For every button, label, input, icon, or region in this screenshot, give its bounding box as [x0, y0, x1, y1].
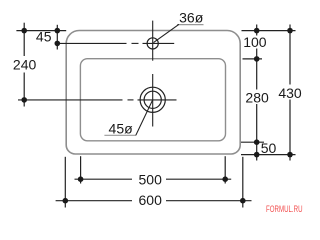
faucet centerline horizontal: [57, 42, 174, 44]
svg-text:45: 45: [36, 29, 52, 45]
dim line 500: [75, 178, 232, 180]
dot chain rim bottom: [254, 152, 260, 158]
dot 240 top: [21, 28, 27, 34]
dot chain basin bottom: [254, 139, 260, 145]
faucet hole circle 36ø: [147, 38, 158, 49]
svg-text:430: 430: [278, 85, 302, 101]
dot 500 right: [222, 176, 228, 182]
dim line 430: [289, 25, 291, 161]
leader 36ø: [154, 24, 180, 42]
dot 600 left: [63, 198, 69, 204]
bottom extension rim left: [64, 157, 66, 208]
dot chain top: [254, 28, 260, 34]
dim line 600: [56, 200, 252, 202]
underline 45ø: [104, 134, 136, 136]
faucet centerline vertical: [152, 21, 154, 61]
right extension line basin bottom: [241, 141, 264, 143]
svg-text:280: 280: [245, 90, 269, 106]
dot chain basin top: [254, 56, 260, 62]
drain centerline vertical: [152, 74, 154, 127]
svg-text:50: 50: [261, 140, 277, 156]
dot 500 left: [78, 176, 84, 182]
svg-text:600: 600: [139, 192, 163, 208]
right extension line basin top: [243, 58, 263, 60]
dim line 45: [56, 25, 58, 50]
dot 600 right: [240, 198, 246, 204]
dot 430 top: [287, 28, 293, 34]
right extension line rim bottom: [241, 154, 296, 156]
svg-text:45ø: 45ø: [109, 121, 134, 137]
bottom extension rim right: [242, 157, 244, 208]
sink outer rim rect 600x430: [66, 31, 240, 155]
dot 240 bottom: [21, 97, 27, 103]
top-left extension line: [16, 30, 66, 32]
svg-text:100: 100: [243, 34, 267, 50]
dot 430 bottom: [287, 152, 293, 158]
drain inner circle 45ø: [144, 91, 161, 108]
bottom extension basin right: [224, 156, 226, 183]
svg-text:240: 240: [13, 56, 37, 72]
dim line 100/280/50 chain: [256, 25, 258, 161]
drain outer circle: [140, 87, 165, 112]
basin inner rect 500x280: [80, 59, 225, 141]
svg-text:FORMUL.RU: FORMUL.RU: [266, 204, 303, 214]
svg-text:36ø: 36ø: [179, 9, 204, 25]
drain centerline horizontal (also 240 extension): [18, 99, 177, 101]
dot 45 bottom: [55, 41, 61, 47]
leader 45ø: [136, 100, 153, 136]
svg-text:500: 500: [139, 172, 163, 188]
dim line 240: [23, 23, 25, 107]
underline 36ø: [177, 24, 204, 26]
bottom extension basin left: [80, 156, 82, 183]
dot 45 top: [55, 28, 61, 34]
right extension line top: [242, 30, 296, 32]
